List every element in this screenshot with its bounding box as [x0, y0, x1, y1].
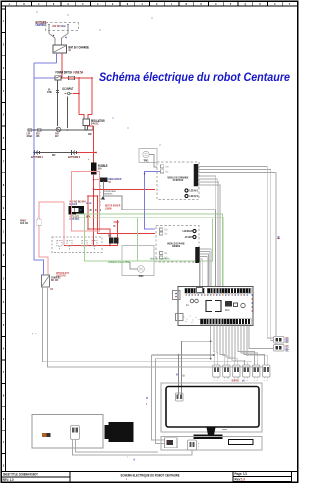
svg-text:Gnd: Gnd [165, 166, 168, 169]
svg-text:Vcc: Vcc [164, 232, 168, 235]
svg-text:F: F [82, 2, 83, 6]
svg-text:LED RIGHT: LED RIGHT [183, 229, 193, 233]
svg-text:Page: 1/1: Page: 1/1 [235, 472, 248, 476]
svg-text:moteurs: moteurs [104, 192, 113, 196]
svg-text:5V: 5V [176, 373, 178, 377]
svg-text:10K: 10K [36, 134, 40, 138]
svg-text:L1: L1 [186, 303, 189, 307]
svg-text:BATTERIE 1: BATTERIE 1 [31, 155, 43, 159]
svg-text:TRK1: TRK1 [144, 159, 149, 163]
svg-text:+: + [88, 157, 89, 161]
svg-text:24V DC: 24V DC [91, 122, 99, 126]
svg-text:-: - [35, 332, 36, 336]
svg-text:H: H [112, 2, 113, 6]
svg-text:In1: In1 [164, 252, 168, 255]
svg-text:5V: 5V [109, 180, 111, 184]
svg-text:BATTERIE 2: BATTERIE 2 [68, 155, 80, 159]
svg-text:Gnd: Gnd [164, 228, 167, 231]
svg-text:Vcc: Vcc [165, 171, 169, 174]
svg-text:N: N [200, 2, 201, 6]
svg-text:S: S [274, 2, 275, 6]
svg-text:100uF: 100uF [27, 134, 33, 138]
svg-text:+: + [32, 332, 33, 336]
svg-text:L: L [171, 2, 172, 6]
svg-text::: : [127, 456, 128, 459]
svg-text:G: G [146, 402, 147, 406]
svg-text:T: T [289, 2, 290, 6]
svg-text:I2C: I2C [286, 348, 289, 352]
svg-text:POWER SWITCH: POWER SWITCH [56, 71, 73, 75]
svg-text:DU MOTEUR: DU MOTEUR [173, 178, 183, 182]
svg-text:P: P [230, 2, 231, 6]
svg-text:12Ah: 12Ah [61, 24, 66, 28]
svg-text:BAT 36 / CHARGE: BAT 36 / CHARGE [69, 46, 90, 50]
svg-text:DC 12V: DC 12V [51, 278, 58, 282]
svg-text:DC INPUT: DC INPUT [63, 87, 74, 91]
svg-text:BAT 36V: BAT 36V [53, 24, 61, 28]
svg-text:LED AV 2: LED AV 2 [190, 194, 199, 198]
svg-text:TRK2: TRK2 [139, 274, 144, 278]
svg-text:E: E [68, 2, 69, 6]
svg-text:EnA EnB: EnA EnB [70, 202, 78, 206]
svg-text:LED AV 1: LED AV 1 [190, 189, 199, 193]
svg-text:24V: 24V [55, 134, 59, 138]
svg-text:MEGA: MEGA [225, 308, 230, 312]
svg-text:5V: 5V [146, 396, 148, 400]
svg-text:SERVOS: SERVOS [232, 378, 239, 382]
svg-text:o1 o2: o1 o2 [86, 201, 92, 205]
svg-text:CHARGEUR: CHARGEUR [36, 23, 47, 27]
svg-text:-: - [198, 446, 199, 449]
svg-text:ENC: ENC [108, 234, 112, 238]
svg-text:Gd: Gd [183, 374, 185, 378]
svg-text:ARRIERE: ARRIERE [172, 244, 180, 248]
svg-text:30A: 30A [98, 167, 102, 171]
svg-text:x6: x6 [242, 378, 245, 382]
svg-text:SHEET TITLE: SCHEMA ROBOT: SHEET TITLE: SCHEMA ROBOT [3, 472, 38, 476]
svg-text:L298N: L298N [105, 207, 111, 211]
svg-text:1.0: 1.0 [241, 477, 245, 481]
svg-text:Arduino mega 2560: Arduino mega 2560 [108, 260, 130, 264]
svg-text:FUSE 5A: FUSE 5A [74, 71, 84, 75]
svg-text:Schéma électrique du robot Cen: Schéma électrique du robot Centaure [99, 70, 290, 84]
svg-text:12V: 12V [50, 287, 53, 291]
svg-text:TH: TH [113, 224, 115, 228]
svg-text:FUSE: FUSE [47, 90, 52, 94]
svg-text:36V: 36V [52, 153, 56, 157]
svg-text:SCHEMA ELECTRIQUE DU ROBOT CEN: SCHEMA ELECTRIQUE DU ROBOT CENTAURE [121, 473, 180, 478]
svg-text:I2C: I2C [286, 340, 289, 344]
svg-text:REV: 1.0: REV: 1.0 [3, 478, 14, 482]
svg-text:In2: In2 [164, 256, 168, 259]
svg-text:GND: GND [88, 132, 92, 136]
svg-text:AR LEFT: AR LEFT [185, 235, 193, 239]
svg-text:AUX 12V: AUX 12V [20, 221, 28, 225]
